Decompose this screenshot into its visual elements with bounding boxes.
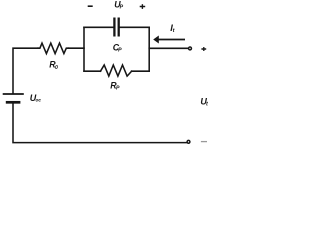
wire box left edge xyxy=(83,27,85,71)
svg-text:UP: UP xyxy=(114,0,123,11)
label plus Up xyxy=(140,4,146,9)
terminal minus xyxy=(187,140,190,143)
battery source Uoc xyxy=(3,94,24,102)
svg-text:R0: R0 xyxy=(49,60,58,71)
wire bottom branch right xyxy=(132,70,150,72)
svg-text:Ut: Ut xyxy=(200,96,209,107)
label minus Up xyxy=(88,5,93,7)
svg-text:CP: CP xyxy=(113,42,122,53)
label plus terminal xyxy=(201,47,206,51)
resistor R0 xyxy=(38,43,68,54)
svg-text:Uoc: Uoc xyxy=(30,93,42,104)
label minus terminal xyxy=(201,141,207,143)
wire bottom branch left xyxy=(84,70,101,72)
wire R0 to box xyxy=(68,47,84,49)
current arrow It xyxy=(153,36,185,44)
svg-text:It: It xyxy=(170,23,175,34)
wire box right edge xyxy=(148,27,150,71)
wire output to plus terminal xyxy=(149,47,188,49)
resistor RP xyxy=(101,65,132,76)
wire top branch right xyxy=(120,26,149,28)
capacitor CP xyxy=(114,18,118,37)
terminal plus xyxy=(189,47,192,50)
wire left vertical top xyxy=(13,48,38,93)
svg-text:RP: RP xyxy=(110,80,120,91)
wire top branch left xyxy=(84,26,113,28)
wire left vertical bottom xyxy=(13,104,186,143)
